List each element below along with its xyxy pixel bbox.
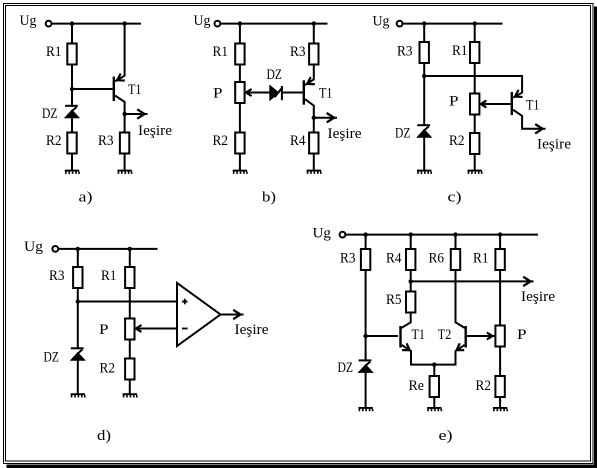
junction rail-R3 (d) xyxy=(76,247,80,251)
node output (e) xyxy=(409,279,413,283)
junction rail-R6 (e) xyxy=(453,232,457,236)
wire DZ to R2 (a) xyxy=(71,118,73,133)
transistor T1 (b) xyxy=(303,65,315,118)
svg-text:R2: R2 xyxy=(213,133,229,149)
svg-text:DZ: DZ xyxy=(338,360,354,376)
ground right (d) xyxy=(123,393,138,397)
label Iesire (e) xyxy=(521,289,555,305)
svg-text:DZ: DZ xyxy=(44,350,60,366)
svg-text:T2: T2 xyxy=(438,327,452,343)
svg-text:R1: R1 xyxy=(213,44,229,60)
wire top rail (a) xyxy=(52,23,142,25)
label R2 (e) xyxy=(476,378,492,394)
zener diode DZ (c) xyxy=(417,125,431,137)
label R3 (d) xyxy=(49,268,65,284)
wire node to DZ (a) xyxy=(71,89,73,107)
resistor R3 (e) xyxy=(361,249,370,270)
label P (b) xyxy=(213,86,223,102)
svg-text:R4: R4 xyxy=(386,250,402,266)
wire top rail (e) xyxy=(345,234,538,236)
svg-text:Ieşire: Ieşire xyxy=(521,289,555,305)
svg-text:R3: R3 xyxy=(397,44,413,60)
wire R2 to ground (a) xyxy=(71,154,73,171)
wire P wiper arrow (b) xyxy=(246,89,271,96)
wire top rail (b) xyxy=(220,23,327,25)
wire R4 to R5 (e) xyxy=(410,270,412,292)
svg-text:DZ: DZ xyxy=(42,106,58,122)
wire R5 to T1 collector (e) xyxy=(401,313,410,329)
node output (b) xyxy=(312,116,316,120)
svg-text:Ieşire: Ieşire xyxy=(138,123,172,139)
svg-text:R2: R2 xyxy=(100,361,116,377)
label Ug (d) xyxy=(24,239,43,255)
wire rail to R3 (c) xyxy=(423,23,425,42)
transistor T1 (c) xyxy=(511,92,546,134)
svg-text:Ieşire: Ieşire xyxy=(537,137,571,153)
label R2 (b) xyxy=(213,133,229,149)
wire top rail (c) xyxy=(403,23,503,25)
node DZ (c) xyxy=(422,74,426,78)
resistor R1 (b) xyxy=(235,44,244,65)
label R4 (b) xyxy=(290,133,306,149)
resistor R3 (d) xyxy=(73,267,82,288)
label R1 (a) xyxy=(46,44,62,60)
svg-text:R3: R3 xyxy=(98,133,114,149)
wire R1 to P (b) xyxy=(239,65,241,83)
node output (a) xyxy=(122,112,126,116)
svg-text:Ug: Ug xyxy=(24,239,43,255)
node emitters (e) xyxy=(432,362,436,366)
resistor R1 (a) xyxy=(67,44,76,65)
svg-text:Re: Re xyxy=(409,378,425,394)
terminal Ug (c) xyxy=(397,21,403,27)
label DZ (e) xyxy=(338,360,354,376)
wire R3 to node (d) xyxy=(77,288,79,302)
svg-text:R3: R3 xyxy=(290,44,306,60)
label P (d) xyxy=(99,322,109,338)
wire P wiper to T1 base (c) xyxy=(481,101,511,108)
wire R2 to ground (e) xyxy=(499,397,501,408)
potentiometer P (b) xyxy=(235,82,244,103)
label Ug (b) xyxy=(194,13,211,29)
wire R4 to ground (b) xyxy=(313,155,315,171)
wire Re to ground (e) xyxy=(433,397,435,408)
svg-text:R1: R1 xyxy=(452,43,468,59)
wire rail to R3 (d) xyxy=(77,248,79,267)
wire node to T1 collector (c) xyxy=(424,76,522,100)
resistor R2 (b) xyxy=(235,133,244,154)
label Iesire (a) xyxy=(138,123,172,139)
label R4 (e) xyxy=(386,250,402,266)
resistor R2 (c) xyxy=(470,133,479,154)
junction rail-T1 (a) xyxy=(122,21,126,25)
terminal Ug (e) xyxy=(340,232,346,238)
potentiometer P (d) xyxy=(125,319,134,340)
resistor R4 (b) xyxy=(309,133,318,154)
wire rail to R1 (e) xyxy=(499,234,501,249)
svg-text:DZ: DZ xyxy=(395,126,411,142)
label T2 (e) xyxy=(438,327,452,343)
resistor R2 (a) xyxy=(67,133,76,154)
label DZ (b) xyxy=(267,67,283,83)
ground left (c) xyxy=(417,170,432,174)
wire rail to R1 (a) xyxy=(71,23,73,44)
resistor R6 (e) xyxy=(451,249,460,270)
label R2 (d) xyxy=(100,361,116,377)
label b) xyxy=(262,190,276,206)
wire rail to R3 (b) xyxy=(313,23,315,44)
wire output to R4 (b) xyxy=(313,118,315,133)
resistor R3 (b) xyxy=(309,44,318,65)
svg-text:R3: R3 xyxy=(49,268,65,284)
junction rail-R3 (e) xyxy=(363,232,367,236)
wire R6 to T2 collector (e) xyxy=(456,270,465,328)
label P (c) xyxy=(449,94,459,110)
zener diode DZ (a) xyxy=(65,106,79,118)
label c) xyxy=(448,190,462,206)
svg-text:T1: T1 xyxy=(526,98,540,114)
label DZ (a) xyxy=(42,106,58,122)
svg-text:P: P xyxy=(517,327,527,343)
ground left (b) xyxy=(233,170,248,174)
ground left (d) xyxy=(71,393,86,397)
label R2 (a) xyxy=(46,133,62,149)
svg-text:P: P xyxy=(213,86,223,102)
wire node to DZ (e) xyxy=(365,336,367,361)
resistor R2 (e) xyxy=(495,376,504,397)
label Ug (e) xyxy=(313,226,332,242)
wire output to R3 (a) xyxy=(124,114,126,133)
svg-text:T1: T1 xyxy=(128,82,142,98)
label T1 (e) xyxy=(412,327,426,343)
label R3 (b) xyxy=(290,44,306,60)
wire rail to R1 (d) xyxy=(129,248,131,267)
ground DZ (e) xyxy=(358,407,373,411)
wire rail to R1 (b) xyxy=(239,23,241,44)
svg-text:R2: R2 xyxy=(46,133,62,149)
svg-text:a): a) xyxy=(79,190,93,206)
potentiometer P (e) xyxy=(495,326,504,347)
wire output arrow (b) xyxy=(314,113,337,122)
wire R1 to P (e) xyxy=(499,270,501,326)
wire node to Re (e) xyxy=(433,365,435,376)
svg-text:c): c) xyxy=(448,190,462,206)
label a) xyxy=(79,190,93,206)
op-amp U1 (d) xyxy=(177,283,221,346)
label DZ (d) xyxy=(44,350,60,366)
label Iesire (c) xyxy=(537,137,571,153)
label R1 (e) xyxy=(473,250,489,266)
label R1 (c) xyxy=(452,43,468,59)
svg-text:R2: R2 xyxy=(476,378,492,394)
svg-text:DZ: DZ xyxy=(267,67,283,83)
label R3 (c) xyxy=(397,44,413,60)
wire R1 to P (d) xyxy=(129,288,131,319)
terminal Ug (d) xyxy=(52,246,58,252)
node base (a) xyxy=(70,87,74,91)
label T1 (c) xyxy=(526,98,540,114)
wire R3 to ground (a) xyxy=(124,154,126,171)
svg-text:b): b) xyxy=(262,190,276,206)
svg-text:P: P xyxy=(99,322,109,338)
label R2 (c) xyxy=(449,133,465,149)
wire base T1 (e) xyxy=(366,335,398,337)
wire rail to R4 (e) xyxy=(410,234,412,249)
wire DZ to ground (d) xyxy=(77,360,79,394)
wire DZ to ground (c) xyxy=(423,137,425,171)
wire P to R2 (e) xyxy=(499,347,501,377)
svg-text:T1: T1 xyxy=(319,86,333,102)
wire DZ to T1 base (b) xyxy=(283,92,303,94)
wire T2 base to P (e) xyxy=(467,333,495,340)
label Iesire (b) xyxy=(328,126,362,142)
frame shadow bottom xyxy=(7,465,597,468)
svg-text:R1: R1 xyxy=(46,44,62,60)
label T1 (a) xyxy=(128,82,142,98)
wire node to opamp plus (d) xyxy=(78,301,177,303)
label Ug (a) xyxy=(20,13,37,29)
junction rail-R3 (b) xyxy=(312,21,316,25)
wire node to DZ (c) xyxy=(423,76,425,126)
label R1 (b) xyxy=(213,44,229,60)
label Iesire (d) xyxy=(235,322,269,338)
wire rail to R1 (c) xyxy=(474,23,476,42)
wire output arrow (d) xyxy=(221,310,244,319)
terminal Ug (b) xyxy=(215,21,221,27)
zener diode DZ (e) xyxy=(359,360,373,372)
svg-text:R5: R5 xyxy=(386,292,402,308)
junction rail-R4 (e) xyxy=(409,232,413,236)
resistor Re (e) xyxy=(430,376,439,397)
ground left (a) xyxy=(65,170,80,174)
svg-text:Ug: Ug xyxy=(20,13,37,29)
wire R2 to ground (b) xyxy=(239,155,241,171)
wire P wiper to opamp minus (d) xyxy=(136,325,177,332)
wire rail to R3 (e) xyxy=(365,234,367,249)
label R1 (d) xyxy=(101,268,117,284)
resistor R1 (c) xyxy=(470,42,479,63)
wire P to R2 (c) xyxy=(474,116,476,134)
transistor T2 (e) xyxy=(434,326,467,365)
svg-text:e): e) xyxy=(439,428,453,444)
label T1 (b) xyxy=(319,86,333,102)
svg-text:T1: T1 xyxy=(412,327,426,343)
wire rail to R6 (e) xyxy=(455,234,457,249)
svg-text:R2: R2 xyxy=(449,133,465,149)
wire output arrow (e) xyxy=(411,277,534,286)
potentiometer P (c) xyxy=(470,94,479,115)
resistor R3 (a) xyxy=(120,133,129,154)
ground R2 (e) xyxy=(493,407,508,411)
junction rail-R3 (c) xyxy=(422,21,426,25)
svg-text:Ug: Ug xyxy=(194,13,211,29)
junction rail-R1 (b) xyxy=(238,21,242,25)
wire R2 to ground (d) xyxy=(129,380,131,395)
wire R2 to ground (c) xyxy=(474,155,476,171)
resistor R3 (c) xyxy=(420,42,429,63)
resistor R1 (d) xyxy=(125,267,134,288)
svg-text:R6: R6 xyxy=(429,250,445,266)
wire top rail (d) xyxy=(58,248,157,250)
resistor R4 (e) xyxy=(406,249,415,270)
junction rail-R1 (d) xyxy=(128,247,132,251)
wire P to R2 (b) xyxy=(239,104,241,133)
svg-text:R4: R4 xyxy=(290,133,306,149)
label R3 (e) xyxy=(340,250,356,266)
ground right (a) xyxy=(117,170,132,174)
label R5 (e) xyxy=(386,292,402,308)
label DZ (c) xyxy=(395,126,411,142)
wire R3 to node (c) xyxy=(423,63,425,76)
label d) xyxy=(97,428,111,444)
frame shadow right xyxy=(594,7,597,468)
wire DZ to ground (e) xyxy=(365,372,367,408)
ground right (b) xyxy=(307,170,322,174)
resistor R5 (e) xyxy=(406,292,415,313)
resistor R2 (d) xyxy=(125,359,134,380)
junction rail-R1 (a) xyxy=(70,21,74,25)
label R3 (a) xyxy=(98,133,114,149)
svg-text:R1: R1 xyxy=(101,268,117,284)
resistor R1 (e) xyxy=(495,249,504,270)
svg-text:R3: R3 xyxy=(340,250,356,266)
transistor T1 (a) xyxy=(113,24,125,114)
svg-text:P: P xyxy=(449,94,459,110)
svg-text:d): d) xyxy=(97,428,111,444)
zener diode DZ (d) xyxy=(71,348,85,360)
wire R1 to base node (a) xyxy=(71,65,73,90)
label R6 (e) xyxy=(429,250,445,266)
terminal Ug (a) xyxy=(46,21,52,27)
label Re (e) xyxy=(409,378,425,394)
svg-text:Ug: Ug xyxy=(313,226,332,242)
wire base (a) xyxy=(72,88,113,90)
wire node to DZ (d) xyxy=(77,302,79,350)
wire P to R2 (d) xyxy=(129,341,131,359)
ground middle (c) xyxy=(468,170,483,174)
node T1 base (e) xyxy=(363,334,367,338)
svg-text:Ug: Ug xyxy=(373,14,390,30)
wire R1 to P (c) xyxy=(474,63,476,94)
label P (e) xyxy=(517,327,527,343)
node DZ (d) xyxy=(76,299,80,303)
transistor T1 (e) xyxy=(399,326,434,365)
svg-text:R1: R1 xyxy=(473,250,489,266)
wire output arrow (a) xyxy=(125,109,148,118)
zener diode DZ (b) xyxy=(270,86,283,101)
svg-text:Ieşire: Ieşire xyxy=(235,322,269,338)
label e) xyxy=(439,428,453,444)
svg-text:Ieşire: Ieşire xyxy=(328,126,362,142)
junction rail-R1 (c) xyxy=(473,21,477,25)
ground Re (e) xyxy=(427,407,442,411)
junction rail-R1 (e) xyxy=(498,232,502,236)
label Ug (c) xyxy=(373,14,390,30)
wire R3 to node (e) xyxy=(365,270,367,336)
